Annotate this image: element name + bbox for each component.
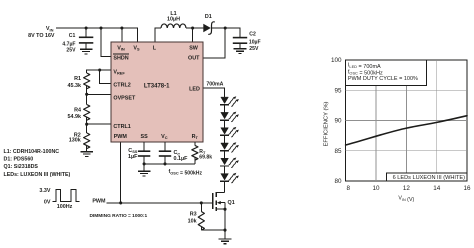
wire R1 to R4 [86,86,88,105]
graph frame [346,60,467,181]
svg-text:25V: 25V [66,48,76,54]
graph gridlines [346,60,467,181]
junction PWM pin branch [119,201,122,204]
y axis tick labels [331,57,342,185]
wire VIN rail to VS pin [56,28,138,42]
label R2 value [69,132,81,143]
wire PWM gate line [107,202,213,204]
svg-text:C1: C1 [69,33,76,39]
resistor RT [192,142,198,164]
label CSS value [128,148,138,160]
diode D1 (Schottky) [204,22,215,34]
svg-text:EFFICIENCY (%): EFFICIENCY (%) [324,101,330,146]
junction OUT branch [224,26,227,29]
wire to CTRL1 [87,123,111,125]
svg-text:8: 8 [346,185,350,192]
svg-text:Q1: Q1 [228,200,235,206]
svg-text:OVPSET: OVPSET [113,96,136,102]
svg-text:LT3478-1: LT3478-1 [144,84,170,90]
svg-text:VREF: VREF [113,69,125,75]
svg-text:10k: 10k [188,219,197,225]
svg-text:D1: D1 [205,14,212,20]
wire jog to CTRL2 [100,70,111,84]
LED 6 [220,173,239,183]
wire LED string to Q1 drain [224,181,226,192]
ground below R2 [80,146,93,157]
junction VREF jog [98,68,101,71]
LED 2 [220,112,239,128]
svg-text:RT: RT [192,134,199,140]
svg-text:PWM: PWM [114,134,128,140]
junction CC bottom [163,162,166,165]
wire VREF to chain [87,70,111,73]
x axis tick labels [346,185,471,192]
wire OUT pin [203,28,225,58]
junction C1 on VIN rail [85,26,88,29]
svg-text:95: 95 [334,88,342,95]
wire LED pin to string [203,88,225,97]
svg-text:25V: 25V [249,46,259,52]
svg-text:SS: SS [140,134,148,140]
ground below C1 [80,49,93,54]
wire source to ground rail [224,209,226,230]
svg-text:69.8k: 69.8k [199,155,212,161]
svg-text:SHDN: SHDN [113,55,128,61]
wire R3 to source ground rail [201,229,225,231]
node VIN input label [28,26,55,39]
svg-text:45.3k: 45.3k [68,83,82,89]
svg-text:PWM DUTY CYCLE = 100%: PWM DUTY CYCLE = 100% [348,76,418,82]
wire PWM pin vertical [120,142,122,203]
svg-text:0V: 0V [44,199,51,205]
svg-text:VIN: VIN [117,45,125,51]
resistor R3 [198,203,204,230]
svg-text:12: 12 [403,185,411,192]
resistor R4 [84,105,90,121]
svg-text:10: 10 [372,185,380,192]
capacitor CC [159,142,171,164]
svg-text:fOSC = 500kHz: fOSC = 500kHz [169,169,203,176]
svg-text:10µF: 10µF [249,39,261,45]
junction SHDN branch on VIN rail [99,26,102,29]
svg-text:3.3V: 3.3V [39,188,50,194]
wire inductor to diode [186,27,204,29]
label RT value [199,149,212,161]
resistor R1 [84,73,90,89]
svg-text:D1: PDS560: D1: PDS560 [4,156,34,162]
wire SHDN branch [101,28,111,57]
svg-text:C2: C2 [249,31,256,37]
svg-text:0.1µF: 0.1µF [174,156,189,162]
svg-text:ILED = 700mA: ILED = 700mA [348,63,381,70]
wire to OVPSET [87,93,111,95]
capacitor CSS [138,142,150,164]
svg-text:130k: 130k [69,138,81,144]
junction VIN pin on rail [120,26,123,29]
junction R3 ground rail [223,229,226,232]
svg-text:VS: VS [133,45,140,51]
graph caption box [387,173,468,181]
svg-text:1µF: 1µF [128,154,138,160]
PWM square wave symbol [53,190,80,202]
svg-text:Q1: Si2318DS: Q1: Si2318DS [4,164,39,170]
svg-text:700mA: 700mA [206,81,223,87]
svg-text:R1: R1 [74,76,81,82]
svg-text:L1: CDRH104R-100NC: L1: CDRH104R-100NC [4,149,60,155]
label R3 value [188,212,197,225]
svg-text:16: 16 [463,185,471,192]
svg-text:100: 100 [331,57,342,64]
ground below CSS [138,164,151,176]
junction CTRL1 branch [85,123,88,126]
label C1 value [62,33,76,54]
junction R3 top [200,201,203,204]
svg-text:CTRL2: CTRL2 [113,83,130,89]
svg-text:CTRL1: CTRL1 [113,124,130,130]
svg-text:LED: LED [189,87,200,93]
svg-text:DIMMING RATIO = 1000:1: DIMMING RATIO = 1000:1 [90,213,148,219]
svg-text:90: 90 [334,118,342,125]
svg-text:80: 80 [334,178,342,185]
capacitor C2 [233,38,247,49]
wire diode to C2 [212,28,241,38]
LED 3 [220,127,239,143]
junction CSS bottom [143,162,146,165]
svg-text:VC: VC [161,134,168,140]
svg-text:54.9k: 54.9k [68,114,82,120]
label L1 [167,11,180,23]
efficiency curve [346,116,467,145]
junction OVPSET branch [85,93,88,96]
svg-text:85: 85 [334,148,342,155]
svg-text:4.7µF: 4.7µF [62,41,75,47]
svg-text:6 LEDs LUXEON III (WHITE): 6 LEDs LUXEON III (WHITE) [393,175,466,181]
ground below C2 [234,49,247,54]
op-amp U1 LT3478-1 IC body [111,42,203,142]
svg-text:R4: R4 [74,107,81,113]
label CC value [174,150,189,162]
transistor Q1 NMOS [213,192,225,211]
svg-text:PWM: PWM [92,198,106,204]
svg-text:14: 14 [433,185,441,192]
wire R4 to R2 [86,117,88,133]
resistor R2 [84,133,90,149]
parts list [4,149,71,178]
wire ground rail SS VC RT [144,163,195,165]
LED 4 [220,142,239,158]
pin SHDN with overline [113,54,129,61]
svg-text:10µH: 10µH [167,17,180,23]
LED 1 [220,96,239,112]
LED 5 [220,158,239,174]
label R4 value [68,107,82,120]
wire L pin up [155,28,161,42]
graph info box [346,60,427,85]
svg-text:VIN: VIN [46,26,54,32]
label R1 value [68,76,82,89]
wire SW pin drop [192,28,194,42]
inductor L1 [161,24,186,28]
svg-text:100Hz: 100Hz [57,204,73,210]
svg-text:8V TO 16V: 8V TO 16V [28,33,55,39]
svg-text:R3: R3 [190,212,197,218]
junction SW [191,26,194,29]
svg-text:LEDs: LUXEON III (WHITE): LEDs: LUXEON III (WHITE) [4,172,71,178]
capacitor C1 [79,28,93,49]
svg-text:SW: SW [189,45,199,51]
label C2 value [249,31,261,52]
svg-text:OUT: OUT [188,55,200,61]
wire VIN pin drop [121,28,123,42]
junction source node [223,208,226,211]
ground below Q1 [219,230,232,244]
